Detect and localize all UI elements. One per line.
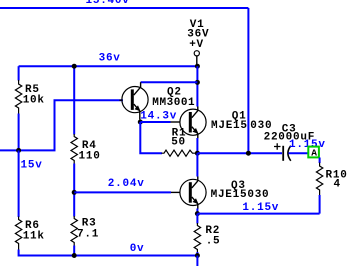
svg-text:15.40v: 15.40v	[86, 0, 130, 7]
wire Q1 collector column	[196, 66, 198, 106]
svg-text:11k: 11k	[23, 230, 45, 242]
wire ground stub below bottom rail	[196, 256, 198, 266]
node junction bottom rail / R2	[195, 253, 200, 258]
svg-text:36v: 36v	[99, 53, 121, 65]
resistor R4	[71, 134, 77, 164]
probe test point A green box	[308, 147, 319, 159]
wire C3 to probe A	[289, 152, 313, 154]
wire R3 to bottom rail	[73, 246, 75, 256]
svg-text:MM3001: MM3001	[152, 97, 195, 109]
wire right vertical from top rail down to output node	[247, 8, 249, 153]
node 2.04v junction	[72, 190, 77, 195]
supply V1 terminal circle	[194, 51, 199, 56]
capacitor C3 plus sign	[274, 143, 281, 150]
node junction 36v rail / middle rail	[72, 64, 77, 69]
node 15v junction	[16, 148, 21, 153]
supply V1 lead	[196, 56, 198, 65]
resistor R5	[15, 80, 21, 114]
svg-text:+V: +V	[189, 39, 204, 51]
transistor Q1 MJE15030	[180, 107, 206, 139]
wire 15v stub to left edge and L up to Q2 base	[0, 100, 123, 150]
wire Q2 collector stub	[140, 82, 142, 88]
wire left rail lower (15v node to R6)	[18, 150, 20, 217]
svg-text:1.15v: 1.15v	[242, 202, 279, 214]
node junction V1 / 36v rail	[195, 64, 200, 69]
wire Q1 base	[140, 121, 170, 123]
capacitor C3 curved plate	[288, 146, 291, 161]
wire 36v rail	[19, 65, 198, 67]
node 1.15v junction below Q3	[195, 211, 200, 216]
resistor R3	[71, 216, 77, 246]
wire Q3 emitter to 1.15v node	[196, 209, 198, 214]
wire probe A down to R10	[319, 158, 321, 164]
wire R10 down to 1.15v rail corner	[319, 195, 321, 214]
resistor R2	[194, 223, 200, 253]
svg-text:.5: .5	[206, 235, 221, 247]
wire output node to C3	[197, 152, 282, 154]
svg-text:A: A	[311, 148, 317, 159]
resistor R1	[162, 150, 197, 156]
svg-text:4: 4	[334, 179, 341, 191]
capacitor C3 left plate	[282, 146, 284, 161]
node junction Q2 collector wire	[195, 80, 200, 85]
wire 1.15v rail to R10	[197, 213, 319, 215]
svg-text:110: 110	[79, 150, 101, 162]
pin Q1 base black lead	[171, 121, 180, 123]
wire Q3 base from 2.04v node	[74, 191, 171, 193]
transistor Q3 MJE15030	[180, 177, 206, 210]
wire top rail net 15.40v	[0, 7, 248, 9]
svg-text:15v: 15v	[21, 160, 43, 172]
svg-text:030: 030	[250, 120, 272, 132]
wire 1.15v node down to R2	[196, 214, 198, 224]
transistor Q2 MM3001	[120, 87, 149, 120]
wire left rail upper (36v rail to R5)	[18, 66, 20, 80]
svg-text:7.1: 7.1	[77, 229, 99, 241]
wire R2 to bottom rail	[196, 252, 198, 256]
wire middle rail from 36v junction down to R4	[73, 66, 75, 134]
svg-text:10k: 10k	[23, 94, 45, 106]
node junction bottom rail / R3	[72, 253, 77, 258]
svg-text:MJE15: MJE15	[211, 120, 248, 132]
node junction output / right vertical	[246, 151, 251, 156]
wire left rail middle (R5 to 15v node)	[18, 114, 20, 151]
resistor R10	[316, 163, 322, 196]
resistor R6	[15, 217, 21, 251]
svg-text:14.3v: 14.3v	[140, 111, 177, 123]
wire Q3 collector from output node	[196, 153, 198, 176]
node 14.3v junction	[138, 120, 143, 125]
wire R6 to bottom rail and bottom 0v rail	[19, 250, 198, 256]
wire Q2 collector horizontal	[141, 81, 198, 83]
svg-text:50: 50	[171, 137, 186, 149]
pin Q3 base black lead	[171, 191, 180, 193]
wire 14.3v node down to R1	[140, 122, 162, 153]
wire Q1 emitter to output node	[196, 138, 198, 153]
svg-text:2.04v: 2.04v	[108, 178, 145, 190]
wire middle rail R4 to 2.04v node down to R3	[73, 164, 75, 217]
svg-text:MJE15030: MJE15030	[211, 189, 270, 201]
svg-text:0v: 0v	[130, 243, 145, 255]
node junction R1 / Q1 emitter output	[195, 151, 200, 156]
